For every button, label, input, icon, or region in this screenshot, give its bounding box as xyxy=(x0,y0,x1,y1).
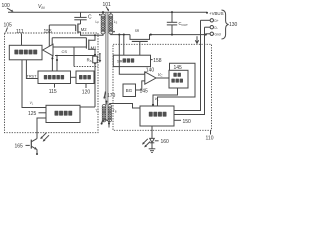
wire: VBUS feedback to op-amp xyxy=(119,35,145,75)
svg-text:105: 105 xyxy=(4,23,13,29)
wire: 115 to 120 xyxy=(71,76,77,78)
wire: drive line to M1 gate top xyxy=(52,38,86,45)
svg-text:D+: D+ xyxy=(215,19,219,23)
pin D- xyxy=(205,26,218,30)
label 100 with arrow xyxy=(2,3,14,12)
svg-text:160: 160 xyxy=(161,139,170,145)
wire: Rs leg to comm interface top xyxy=(80,106,95,108)
label 165 xyxy=(15,144,30,150)
aux winding xyxy=(95,105,117,122)
analyzer box 115 xyxy=(38,71,71,84)
svg-text:VL: VL xyxy=(155,96,160,102)
svg-text:140: 140 xyxy=(146,67,155,73)
svg-text:LP: LP xyxy=(96,20,100,25)
light arrows into 165 xyxy=(40,133,49,142)
svg-text:125: 125 xyxy=(28,111,37,117)
svg-text:VC: VC xyxy=(158,72,164,78)
wire: controller to comm interface (VL) xyxy=(22,60,46,108)
svg-text:110: 110 xyxy=(206,135,214,141)
node: rail junction dots xyxy=(102,11,208,14)
svg-text:SR: SR xyxy=(135,29,140,33)
svg-text:TB: TB xyxy=(113,109,117,114)
ground under LED xyxy=(149,149,156,153)
svg-text:145: 145 xyxy=(140,89,149,95)
label 115 xyxy=(49,84,57,95)
svg-text:M2: M2 xyxy=(81,27,87,32)
label 125 xyxy=(28,111,46,117)
svg-text:COUT: COUT xyxy=(179,21,189,27)
op-amp 140 xyxy=(144,67,156,84)
SR controller box 135 xyxy=(113,55,150,66)
pin D+ xyxy=(201,19,219,23)
svg-text:120: 120 xyxy=(82,90,91,96)
bandgap box BG xyxy=(123,84,136,97)
transistor M1 (main switch) xyxy=(86,35,97,54)
label 120 xyxy=(82,84,91,96)
label 111 xyxy=(16,29,24,46)
svg-text:LS: LS xyxy=(114,20,118,25)
wire: M1 gate drive xyxy=(53,46,86,48)
svg-text:D-: D- xyxy=(215,26,218,30)
comm interface box 125 xyxy=(46,105,80,122)
svg-text:145: 145 xyxy=(174,65,183,71)
shunt box 120 xyxy=(76,71,94,84)
aux winding bottom terminals with arc xyxy=(101,120,110,128)
label 170 with arrow xyxy=(103,92,115,100)
wire: drain sense to SR controller xyxy=(123,35,125,56)
svg-text:150: 150 xyxy=(183,119,192,125)
dashed box 110 (secondary controller) xyxy=(113,44,212,130)
svg-text:SR: SR xyxy=(117,59,123,64)
comm interface box 150 xyxy=(140,106,174,126)
dashed box 105 (primary controller) xyxy=(5,33,99,133)
inner dashed boundary segment xyxy=(74,66,98,68)
label 150 xyxy=(174,119,191,125)
svg-text:Gnd: Gnd xyxy=(215,33,221,37)
aux winding node dot xyxy=(105,101,140,109)
SR mosfet on output rail xyxy=(130,29,206,55)
svg-text:130: 130 xyxy=(229,22,238,28)
wire: triangle to analyzer box xyxy=(51,56,58,72)
wire from M1 gate line down to inner boundary xyxy=(73,47,75,67)
svg-text:111: 111 xyxy=(16,29,24,35)
label 101 with arrow xyxy=(103,2,112,12)
svg-text:170: 170 xyxy=(107,93,116,99)
resistor Rs xyxy=(87,55,98,107)
wire: 120 to Rs leg xyxy=(94,76,95,78)
label 145 xyxy=(140,89,149,95)
driver triangle 155 xyxy=(42,44,53,56)
svg-text:155: 155 xyxy=(44,29,53,35)
svg-text:VL: VL xyxy=(30,101,34,106)
capacitor Cout xyxy=(167,12,188,34)
svg-text:100: 100 xyxy=(2,3,11,9)
svg-text:CS: CS xyxy=(62,49,68,54)
label 110 xyxy=(206,131,214,142)
current arrow at Rs xyxy=(99,53,102,63)
label 160 xyxy=(155,139,169,145)
wire: D+ pin to comm interface xyxy=(174,20,201,110)
wire: gate drive vertical from driver to M2 xyxy=(48,25,50,46)
wire: comm interface to opto transistor xyxy=(37,118,46,139)
label 105 xyxy=(4,23,13,33)
svg-text:C: C xyxy=(88,15,92,21)
svg-text:RS: RS xyxy=(87,58,92,64)
LED 160 (optocoupler emitter) xyxy=(150,126,155,149)
capacitor C (clamp) xyxy=(74,12,92,24)
svg-text:TRST: TRST xyxy=(27,74,38,78)
transistor M2 (clamp switch) xyxy=(76,24,95,36)
brace 130 xyxy=(222,10,238,39)
svg-text:TA: TA xyxy=(95,109,99,114)
wire: op-amp output VC xyxy=(156,72,169,78)
wire VL: box 143 to comm interface xyxy=(152,88,178,106)
svg-text:158: 158 xyxy=(153,58,162,64)
reference generator box 143 xyxy=(169,70,188,88)
output voltage arrow xyxy=(195,36,198,43)
svg-text:BG: BG xyxy=(126,88,133,93)
wire TRST: controller to analyzer xyxy=(26,60,38,79)
Vin rail wire xyxy=(8,4,207,12)
wire: BG to op-amp inverting input xyxy=(136,81,145,90)
switch controller box 111 xyxy=(9,45,42,60)
secondary winding LS xyxy=(109,12,130,34)
svg-text:M1: M1 xyxy=(91,45,97,50)
svg-text:165: 165 xyxy=(15,144,24,150)
wire CS sense line xyxy=(55,49,96,56)
svg-text:+VBUS: +VBUS xyxy=(209,11,224,16)
transformer core xyxy=(106,13,108,121)
svg-text:VIN: VIN xyxy=(38,4,45,10)
node N1: M1 drain junction xyxy=(94,34,96,36)
label 158 xyxy=(151,58,162,64)
wire: M2 gate drive xyxy=(49,24,75,26)
wire: D- pin to comm interface xyxy=(174,27,205,114)
output rail junction dots xyxy=(118,34,207,36)
primary winding LP xyxy=(95,12,105,35)
pin GND xyxy=(206,32,221,36)
phototransistor 165 xyxy=(31,139,38,155)
light arrows from 160 xyxy=(142,139,150,148)
wire: box 143 loop to comm interface xyxy=(158,63,196,106)
svg-text:115: 115 xyxy=(49,89,57,95)
